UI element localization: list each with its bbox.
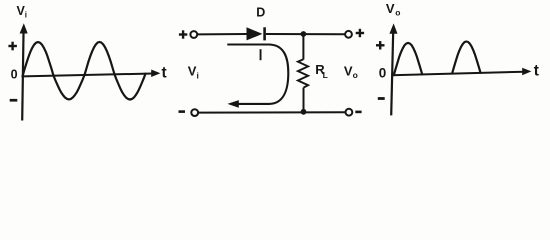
svg-text:V: V bbox=[188, 64, 197, 79]
rectified hump 2 bbox=[452, 42, 480, 74]
label - (output bottom) bbox=[355, 111, 361, 114]
left vertical axis bbox=[22, 27, 23, 121]
label + (right plot) bbox=[376, 41, 385, 49]
label + (input top) bbox=[179, 30, 187, 38]
diode D (triangle) bbox=[247, 27, 263, 40]
svg-text:V: V bbox=[344, 64, 353, 79]
right horizontal axis (t) bbox=[391, 72, 524, 76]
label + (left plot) bbox=[8, 42, 17, 51]
svg-text:o: o bbox=[353, 70, 358, 80]
svg-text:0: 0 bbox=[379, 65, 387, 80]
junction (bottom node) bbox=[301, 109, 307, 115]
left vertical axis arrowhead bbox=[20, 23, 28, 33]
svg-text:D: D bbox=[256, 6, 265, 20]
current loop arrowhead bbox=[227, 100, 238, 108]
right vertical axis arrowhead bbox=[389, 23, 397, 33]
left t-axis arrowhead bbox=[151, 70, 160, 78]
svg-text:i: i bbox=[197, 71, 199, 81]
label I (current) bbox=[260, 49, 262, 60]
resistor RL (zigzag) bbox=[298, 59, 308, 87]
input bottom terminal bbox=[191, 109, 198, 116]
wire: diode cathode to top-right terminal bbox=[266, 33, 345, 35]
svg-text:V: V bbox=[386, 1, 395, 16]
svg-text:L: L bbox=[323, 70, 328, 80]
svg-text:t: t bbox=[534, 63, 539, 80]
svg-text:i: i bbox=[25, 11, 27, 20]
junction (top node) bbox=[301, 31, 307, 37]
left horizontal axis (t) bbox=[23, 74, 154, 77]
diode cathode bar bbox=[263, 27, 266, 40]
label + (output top) bbox=[356, 29, 364, 37]
right t-axis arrowhead bbox=[522, 68, 531, 76]
wire: top junction down to resistor bbox=[302, 34, 304, 60]
svg-text:t: t bbox=[162, 65, 167, 82]
bottom wire bbox=[198, 111, 345, 113]
label - (right plot) bbox=[378, 97, 385, 100]
right vertical axis bbox=[391, 27, 393, 115]
current loop arrow I bbox=[227, 45, 288, 104]
svg-text:0: 0 bbox=[11, 68, 18, 82]
wire: resistor to bottom junction bbox=[303, 88, 305, 113]
svg-text:o: o bbox=[395, 8, 400, 18]
rectified hump 1 bbox=[394, 43, 422, 75]
output top terminal bbox=[345, 31, 352, 38]
sine wave (two full cycles) bbox=[23, 42, 146, 100]
input top terminal bbox=[190, 31, 197, 38]
output bottom terminal bbox=[346, 109, 353, 116]
wire: input top terminal to diode anode bbox=[197, 33, 246, 35]
label - (left plot) bbox=[10, 99, 18, 102]
label - (input bottom) bbox=[179, 110, 186, 113]
